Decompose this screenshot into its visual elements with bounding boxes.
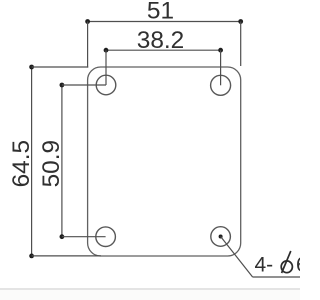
svg-text:4-: 4- [255, 254, 274, 277]
photo bottom edge line [0, 288, 300, 290]
end dot bottom (50.9) [60, 234, 65, 239]
extension line bottom (50.9) to hole center [62, 236, 106, 238]
hole bottom-right [211, 227, 231, 247]
end dot right (38.2) [218, 48, 223, 53]
svg-text:64.5: 64.5 [8, 140, 35, 187]
svg-text:38.2: 38.2 [137, 27, 184, 54]
photo bottom margin tint [0, 290, 300, 300]
end dot bottom (64.5) [29, 254, 34, 259]
svg-text:50.9: 50.9 [38, 140, 65, 187]
svg-text:51: 51 [147, 0, 174, 25]
extension line bottom (64.5) [32, 255, 101, 257]
end dot top (50.9) [60, 83, 65, 88]
leader dot at bottom-right hole center [219, 235, 223, 239]
end dot right (51) [238, 19, 243, 24]
extension line right (51) [240, 22, 242, 67]
dimension line 51 [88, 21, 241, 23]
label phi symbol [281, 251, 292, 273]
hole top-left [96, 75, 116, 95]
hole top-right [211, 75, 231, 95]
extension line right (38.2) to hole center [220, 50, 222, 85]
end dot left (38.2) [104, 48, 109, 53]
end dot left (51) [85, 19, 90, 24]
extension line top (50.9) to hole center [62, 84, 106, 86]
leader diagonal segment [221, 237, 253, 278]
dimension line 64.5 [31, 67, 33, 256]
extension line top (64.5) [32, 66, 89, 68]
extension line left (51) [87, 22, 89, 68]
hole bottom-left [96, 227, 116, 247]
end dot top (64.5) [29, 65, 34, 70]
leader horizontal segment [253, 276, 300, 278]
extension line left (38.2) to hole center [105, 50, 107, 85]
svg-text:6: 6 [296, 254, 300, 277]
dimension line 50.9 [61, 85, 63, 237]
dimension line 38.2 [106, 49, 221, 51]
plate outline (neck plate) [88, 67, 241, 256]
